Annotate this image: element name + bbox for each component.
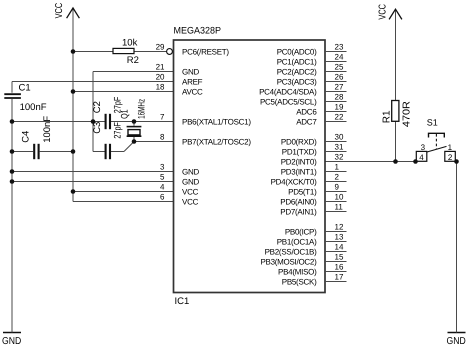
wire crystal bottom lead bbox=[133, 137, 135, 142]
wire C1 top stub bbox=[11, 82, 13, 93]
wire XTAL1 row to pin7 bbox=[111, 121, 174, 123]
svg-text:7: 7 bbox=[160, 112, 165, 121]
svg-text:PD3(INT1): PD3(INT1) bbox=[281, 168, 317, 177]
junction VCC/AVCC bbox=[71, 89, 76, 94]
svg-text:4: 4 bbox=[419, 153, 424, 162]
pin 25 PC2(ADC2) (right) bbox=[277, 62, 347, 76]
junction S1 pin2 bbox=[454, 159, 459, 164]
op-amp U1 IC MEGA328P body bbox=[174, 40, 326, 293]
svg-text:PD6(AIN0): PD6(AIN0) bbox=[280, 198, 317, 207]
svg-text:PC6(/RESET): PC6(/RESET) bbox=[182, 48, 229, 57]
svg-text:VCC: VCC bbox=[182, 198, 199, 207]
svg-text:5: 5 bbox=[160, 172, 165, 181]
svg-text:PC3(ADC3): PC3(ADC3) bbox=[277, 78, 317, 87]
junction VCC/C4 bbox=[71, 149, 76, 154]
svg-text:S1: S1 bbox=[427, 117, 438, 127]
svg-text:9: 9 bbox=[335, 182, 340, 191]
svg-text:3: 3 bbox=[421, 143, 426, 152]
wire GND pin21 descender bbox=[92, 72, 94, 152]
pin 29 PC6(/RESET) (left) bbox=[156, 42, 230, 56]
svg-text:PC4(ADC4/SDA): PC4(ADC4/SDA) bbox=[259, 88, 317, 97]
svg-text:IC1: IC1 bbox=[175, 296, 190, 307]
svg-text:15: 15 bbox=[335, 252, 344, 261]
wire VCC to AVCC pin18 bbox=[73, 91, 174, 93]
svg-text:14: 14 bbox=[335, 242, 344, 251]
junction crystal bottom bbox=[132, 139, 137, 144]
pin 24 PC1(ADC1) (right) bbox=[277, 52, 347, 66]
pin 16 PB4(MISO) (right) bbox=[278, 262, 346, 276]
svg-text:8: 8 bbox=[160, 132, 165, 141]
pin 10 PD6(AIN0) (right) bbox=[280, 192, 346, 206]
pin 2 PD4(XCK/T0) (right) bbox=[271, 172, 347, 186]
svg-text:2: 2 bbox=[448, 153, 453, 162]
wire GND row pin3 bbox=[12, 171, 174, 173]
pin 20 AREF (left) bbox=[156, 72, 203, 86]
svg-text:PD0(RXD): PD0(RXD) bbox=[281, 138, 317, 147]
power symbol VCC (left) bbox=[54, 3, 80, 202]
svg-text:PB4(MISO): PB4(MISO) bbox=[278, 268, 317, 277]
svg-text:10: 10 bbox=[335, 192, 344, 201]
pin 3 GND (left) bbox=[160, 162, 199, 176]
svg-text:R2: R2 bbox=[127, 55, 139, 66]
svg-text:6: 6 bbox=[160, 192, 165, 201]
pin 23 PC0(ADC0) (right) bbox=[277, 42, 347, 56]
svg-text:19: 19 bbox=[335, 102, 344, 111]
svg-text:13: 13 bbox=[335, 232, 344, 241]
svg-text:ADC6: ADC6 bbox=[296, 108, 317, 117]
junction GND/pin3 bbox=[10, 169, 15, 174]
wire XTAL2 row to pin8 bbox=[134, 141, 174, 143]
svg-text:12: 12 bbox=[335, 222, 344, 231]
wire diagonal C3 to XTAL2 bbox=[124, 142, 134, 152]
svg-text:C1: C1 bbox=[19, 83, 31, 94]
pin 18 AVCC (left) bbox=[156, 82, 203, 96]
wire R1 bottom lead bbox=[395, 121, 397, 161]
resistor R2 10k bbox=[113, 38, 139, 67]
svg-text:VCC: VCC bbox=[378, 4, 389, 20]
svg-text:23: 23 bbox=[335, 42, 344, 51]
capacitor C2 27pF bbox=[92, 97, 124, 130]
pin 9 PD5(T1) (right) bbox=[288, 182, 346, 196]
junction VCC/pin4 bbox=[71, 189, 76, 194]
svg-text:PC2(ADC2): PC2(ADC2) bbox=[277, 68, 317, 77]
pin 28 PC5(ADC5/SCL) (right) bbox=[260, 92, 347, 106]
pin 1 PD3(INT1) (right) bbox=[281, 162, 347, 176]
svg-text:PB6(XTAL1/TOSC1): PB6(XTAL1/TOSC1) bbox=[182, 118, 251, 127]
svg-text:2: 2 bbox=[335, 172, 340, 181]
capacitor C1 100nF bbox=[4, 83, 46, 114]
pin 30 PD0(RXD) (right) bbox=[281, 132, 347, 146]
svg-text:GND: GND bbox=[2, 336, 21, 346]
svg-text:16MHz: 16MHz bbox=[137, 99, 148, 119]
svg-text:PD7(AIN1): PD7(AIN1) bbox=[280, 208, 317, 217]
svg-text:PD2(INT0): PD2(INT0) bbox=[281, 158, 317, 167]
svg-text:1: 1 bbox=[448, 143, 453, 152]
wire AREF row to pin20 bbox=[12, 81, 174, 83]
pin 15 PB3(MOSI/OC2) (right) bbox=[260, 252, 346, 266]
svg-text:PC1(ADC1): PC1(ADC1) bbox=[277, 58, 317, 67]
svg-text:ADC7: ADC7 bbox=[296, 118, 317, 127]
resistor R1 470R bbox=[382, 101, 413, 128]
svg-text:28: 28 bbox=[335, 92, 344, 101]
junction GND descender/C2 bbox=[91, 119, 96, 124]
junction crystal top bbox=[132, 119, 137, 124]
pin 21 GND (left) bbox=[156, 62, 200, 76]
power symbol VCC (right) bbox=[378, 4, 402, 101]
wire VCC to R2 left bbox=[73, 51, 113, 53]
svg-text:29: 29 bbox=[156, 42, 165, 51]
inversion bubble pin 29 bbox=[167, 49, 173, 55]
svg-text:MEGA328P: MEGA328P bbox=[174, 26, 222, 37]
svg-text:16: 16 bbox=[335, 262, 344, 271]
svg-text:1: 1 bbox=[335, 162, 340, 171]
svg-text:20: 20 bbox=[156, 72, 165, 81]
svg-text:30: 30 bbox=[335, 132, 344, 141]
svg-text:27: 27 bbox=[335, 82, 344, 91]
wire GND row pin5 bbox=[12, 181, 174, 183]
svg-text:18: 18 bbox=[156, 82, 165, 91]
svg-text:AVCC: AVCC bbox=[182, 88, 203, 97]
wire crystal top lead bbox=[133, 122, 135, 126]
svg-text:PC0(ADC0): PC0(ADC0) bbox=[277, 48, 317, 57]
svg-text:17: 17 bbox=[335, 272, 344, 281]
svg-text:GND: GND bbox=[182, 178, 199, 187]
svg-text:PB1(OC1A): PB1(OC1A) bbox=[277, 238, 317, 247]
wire GND to C4 left bbox=[12, 151, 33, 153]
pin 32 PD2(INT0) (right) bbox=[281, 152, 344, 166]
pin 11 PD7(AIN1) (right) bbox=[280, 202, 346, 216]
pin 12 PB0(ICP) (right) bbox=[285, 222, 347, 236]
svg-text:27pF: 27pF bbox=[113, 122, 124, 139]
wire C3 right lead bbox=[111, 151, 124, 153]
wire GND column (left) bbox=[11, 99, 13, 333]
svg-text:VCC: VCC bbox=[54, 3, 65, 19]
pin 14 PB2(SS/OC1B) (right) bbox=[265, 242, 347, 256]
svg-text:R1: R1 bbox=[382, 110, 393, 123]
pin 22 ADC7 (right) bbox=[296, 112, 346, 126]
svg-text:PD1(TXD): PD1(TXD) bbox=[282, 148, 317, 157]
svg-text:11: 11 bbox=[335, 202, 344, 211]
pin 31 PD1(TXD) (right) bbox=[282, 142, 347, 156]
pin 7 PB6(XTAL1/TOSC1) (left) bbox=[160, 112, 251, 126]
wire VCC column to row6 corner bbox=[73, 201, 174, 203]
switch S1 bbox=[416, 117, 455, 162]
pin 19 ADC6 (right) bbox=[296, 102, 346, 116]
wire GND row to C2 left plate bbox=[12, 121, 105, 123]
pin 5 GND (left) bbox=[160, 172, 199, 186]
svg-text:VCC: VCC bbox=[182, 188, 199, 197]
svg-text:31: 31 bbox=[335, 142, 344, 151]
svg-text:AREF: AREF bbox=[182, 78, 203, 87]
svg-text:PB5(SCK): PB5(SCK) bbox=[282, 278, 317, 287]
wire S1 to GND (right) bbox=[456, 162, 458, 333]
svg-text:21: 21 bbox=[156, 62, 165, 71]
svg-text:4: 4 bbox=[160, 182, 165, 191]
pin 26 PC3(ADC3) (right) bbox=[277, 72, 347, 86]
svg-text:PD4(XCK/T0): PD4(XCK/T0) bbox=[271, 178, 318, 187]
capacitor C4 100nF bbox=[21, 116, 53, 160]
svg-text:PD5(T1): PD5(T1) bbox=[288, 188, 317, 197]
pin 8 PB7(XTAL2/TOSC2) (left) bbox=[160, 132, 251, 146]
svg-text:100nF: 100nF bbox=[20, 102, 47, 113]
capacitor C3 27pF bbox=[92, 122, 124, 160]
svg-text:PC5(ADC5/SCL): PC5(ADC5/SCL) bbox=[260, 98, 317, 107]
svg-text:22: 22 bbox=[335, 112, 344, 121]
svg-text:PB0(ICP): PB0(ICP) bbox=[285, 228, 317, 237]
junction R1/pin32 wire bbox=[393, 159, 398, 164]
svg-text:3: 3 bbox=[160, 162, 165, 171]
svg-text:25: 25 bbox=[335, 62, 344, 71]
svg-text:26: 26 bbox=[335, 72, 344, 81]
pin 17 PB5(SCK) (right) bbox=[282, 272, 347, 286]
junction GND/XTAL row bbox=[10, 119, 15, 124]
svg-text:10k: 10k bbox=[122, 38, 138, 49]
svg-text:GND: GND bbox=[447, 336, 466, 346]
pin 13 PB1(OC1A) (right) bbox=[277, 232, 347, 246]
wire C3 left lead bbox=[93, 151, 105, 153]
junction GND/C4 bbox=[10, 149, 15, 154]
ground symbol GND (bottom-left) bbox=[2, 333, 21, 346]
svg-text:GND: GND bbox=[182, 68, 199, 77]
wire VCC to pin4 bbox=[73, 191, 174, 193]
pin 27 PC4(ADC4/SDA) (right) bbox=[259, 82, 346, 96]
wire R2 right to reset bubble bbox=[134, 51, 167, 53]
crystal Q1 16MHz bbox=[120, 99, 148, 136]
svg-text:470R: 470R bbox=[402, 101, 413, 127]
junction VCC/R2 bbox=[71, 49, 76, 54]
ground symbol GND (bottom-right) bbox=[447, 333, 466, 346]
wire pin21 row bbox=[93, 71, 174, 73]
svg-text:Q1: Q1 bbox=[120, 109, 131, 119]
svg-text:PB7(XTAL2/TOSC2): PB7(XTAL2/TOSC2) bbox=[182, 138, 251, 147]
svg-text:C2: C2 bbox=[92, 101, 103, 113]
svg-text:100nF: 100nF bbox=[42, 116, 53, 143]
svg-text:32: 32 bbox=[335, 152, 344, 161]
svg-text:PB3(MOSI/OC2): PB3(MOSI/OC2) bbox=[260, 258, 317, 267]
pin 6 VCC (left) bbox=[160, 192, 199, 206]
svg-text:PB2(SS/OC1B): PB2(SS/OC1B) bbox=[265, 248, 317, 257]
wire C4 right to VCC bbox=[40, 151, 73, 153]
svg-text:GND: GND bbox=[182, 168, 199, 177]
junction GND/pin5 bbox=[10, 179, 15, 184]
pin 4 VCC (left) bbox=[160, 182, 199, 196]
wire pin32 to S1 bbox=[325, 161, 416, 163]
svg-text:24: 24 bbox=[335, 52, 344, 61]
svg-text:C4: C4 bbox=[21, 131, 32, 143]
junction S1 pin4 bbox=[413, 159, 418, 164]
